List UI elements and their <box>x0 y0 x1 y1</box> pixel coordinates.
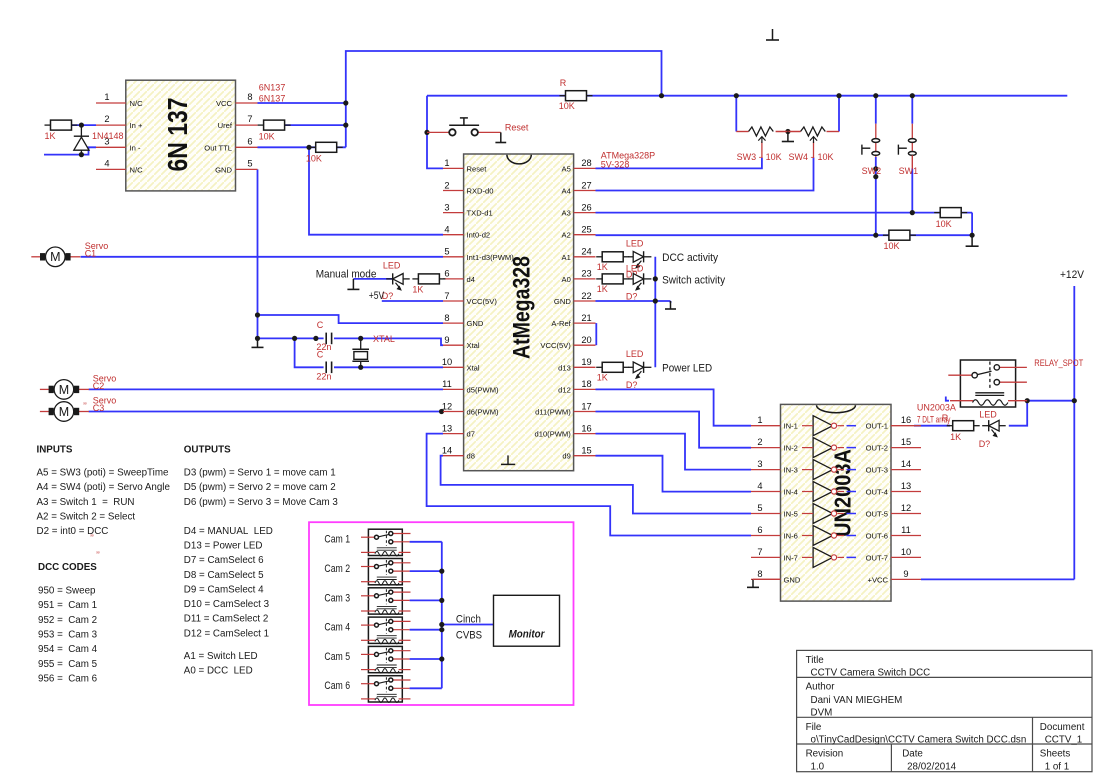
junction LED switch <box>653 276 658 281</box>
svg-text:10K: 10K <box>818 152 834 162</box>
svg-text:12: 12 <box>442 401 452 411</box>
svg-text:1K: 1K <box>412 285 423 295</box>
wire cam4 video <box>410 629 442 631</box>
svg-text:A2: A2 <box>562 231 571 240</box>
wire SW2 lower leg <box>875 157 877 235</box>
junction OutTTL <box>306 145 311 150</box>
svg-text:22n: 22n <box>316 372 331 382</box>
junction rail corner <box>659 93 664 98</box>
svg-text:A-Ref: A-Ref <box>551 319 571 328</box>
svg-text:Cam 5: Cam 5 <box>324 651 350 663</box>
svg-text:7: 7 <box>247 114 252 124</box>
resistor R? 10K Uref <box>258 120 291 141</box>
svg-text:OUT-7: OUT-7 <box>866 553 888 562</box>
svg-text:Xtal: Xtal <box>467 341 480 350</box>
relay Cam 3 <box>361 588 411 615</box>
resistor R? 1K d13 <box>596 362 629 382</box>
svg-text:R: R <box>560 78 567 88</box>
wire GND pin22 bend <box>670 301 672 303</box>
table title block <box>797 650 1092 771</box>
svg-text:1 of 1: 1 of 1 <box>1045 762 1070 773</box>
junction LED gnd <box>653 298 658 303</box>
svg-text:8: 8 <box>757 569 762 579</box>
resistor R? 10K OutTTL <box>306 142 343 163</box>
U1 pin numbers <box>104 92 252 168</box>
junction xtal left <box>292 336 297 341</box>
svg-text:IN-5: IN-5 <box>784 510 798 519</box>
U1 pin names <box>130 99 233 174</box>
junction d6 wire <box>439 409 444 414</box>
wire d8 to IN-5 <box>441 456 751 514</box>
svg-text:9: 9 <box>903 569 908 579</box>
wire SW1 lower leg <box>911 169 913 213</box>
relay RELAY_SPDT <box>948 360 1027 407</box>
svg-text:12: 12 <box>901 503 911 513</box>
relay Cam 1 <box>361 529 411 556</box>
resistor R? 1K A1 <box>596 252 629 272</box>
svg-text:Xtal: Xtal <box>467 363 480 372</box>
svg-text:+12V: +12V <box>1060 269 1085 281</box>
wire A5 to SW3 wiper <box>596 158 762 169</box>
svg-text:GND: GND <box>467 319 484 328</box>
wire cam1 video <box>410 541 442 543</box>
svg-text:18: 18 <box>581 379 591 389</box>
svg-text:13: 13 <box>901 481 911 491</box>
junction reset node <box>424 130 429 135</box>
wire +5V top rail <box>346 51 662 147</box>
svg-text:Reset: Reset <box>505 123 529 133</box>
svg-text:1N4148: 1N4148 <box>92 131 124 141</box>
svg-text:Revision: Revision <box>806 749 844 760</box>
svg-text:5: 5 <box>444 247 449 257</box>
switch Reset pushbutton <box>427 118 501 136</box>
svg-text:OUTPUTS: OUTPUTS <box>184 445 231 456</box>
svg-text:4: 4 <box>444 225 449 235</box>
svg-text:A3: A3 <box>562 209 571 218</box>
junction crystal top <box>358 336 363 341</box>
wire d10 to IN-3 <box>596 434 752 470</box>
svg-text:d12: d12 <box>558 385 571 394</box>
resistor R? 10K A2 <box>883 230 916 251</box>
relay Cam 2 <box>361 559 411 586</box>
IC U2 AtMega328 <box>464 154 574 471</box>
svg-text:File: File <box>806 722 822 733</box>
svg-text:D7 = CamSelect 6: D7 = CamSelect 6 <box>184 555 264 566</box>
svg-text:A5: A5 <box>562 164 571 173</box>
resistor R 10K pullup <box>560 91 593 101</box>
svg-text:Manual mode: Manual mode <box>316 269 377 281</box>
led D? manual mode <box>386 273 410 290</box>
svg-text:VCC(5V): VCC(5V) <box>467 297 498 306</box>
svg-text:24: 24 <box>581 247 591 257</box>
svg-text:D?: D? <box>626 380 638 390</box>
junction GND pin8 <box>255 312 260 317</box>
svg-text:21: 21 <box>581 313 591 323</box>
svg-text:IN-6: IN-6 <box>784 532 798 541</box>
svg-text:8: 8 <box>444 313 449 323</box>
svg-text:14: 14 <box>901 459 911 469</box>
svg-text:D11 = CamSelect 2: D11 = CamSelect 2 <box>184 614 268 625</box>
svg-text:VCC: VCC <box>216 99 233 108</box>
ground U3 GND pin <box>747 579 759 587</box>
svg-text:D3 (pwm) = Servo 1 = move cam: D3 (pwm) = Servo 1 = move cam 1 <box>184 468 336 479</box>
svg-text:20: 20 <box>581 335 591 345</box>
motor servo C1 <box>31 247 80 267</box>
svg-text:A3 = Switch 1 = RUN: A3 = Switch 1 = RUN <box>37 497 135 508</box>
lead SW3 left <box>736 131 748 133</box>
svg-text:28/02/2014: 28/02/2014 <box>907 762 957 773</box>
svg-text:Uref: Uref <box>218 121 233 130</box>
svg-text:1K: 1K <box>597 284 608 294</box>
svg-text:953 = Cam 3: 953 = Cam 3 <box>38 630 98 641</box>
junction +12V <box>1072 398 1077 403</box>
text title block fields <box>806 655 1085 773</box>
svg-text:15: 15 <box>581 446 591 456</box>
U2 pin numbers <box>442 158 592 455</box>
svg-text:6N137: 6N137 <box>259 83 286 93</box>
wire LED to relay coil <box>1009 401 1027 426</box>
box cam group magenta <box>309 522 574 705</box>
potentiometer SW4 10K <box>801 127 826 158</box>
svg-text:A4 = SW4 (poti) = Servo Angle: A4 = SW4 (poti) = Servo Angle <box>37 482 171 493</box>
svg-text:d5(PWM): d5(PWM) <box>467 385 500 394</box>
wire cam video bus <box>441 542 443 689</box>
wire servo C3 to d6 <box>89 411 443 413</box>
switch SW1 pushbutton <box>898 124 916 157</box>
svg-text:D5 (pwm) = Servo 2 = move cam: D5 (pwm) = Servo 2 = move cam 2 <box>184 482 336 493</box>
svg-text:’’: ’’ <box>83 401 87 411</box>
svg-text:954 = Cam 4: 954 = Cam 4 <box>38 644 98 655</box>
svg-text:1K: 1K <box>45 131 56 141</box>
svg-text:25: 25 <box>581 225 591 235</box>
wire SW3 top leg <box>735 96 737 132</box>
wire A4 to SW4 wiper <box>596 158 814 191</box>
junction SW2 b <box>873 174 878 179</box>
svg-text:SW4 -: SW4 - <box>789 152 814 162</box>
svg-text:OUT-6: OUT-6 <box>866 532 888 541</box>
svg-text:OUT-2: OUT-2 <box>866 444 888 453</box>
svg-text:7: 7 <box>444 291 449 301</box>
svg-text:17: 17 <box>581 401 591 411</box>
svg-text:RXD-d0: RXD-d0 <box>467 187 494 196</box>
svg-text:23: 23 <box>581 269 591 279</box>
lead SW4 right <box>827 131 840 133</box>
svg-text:GND: GND <box>554 297 571 306</box>
svg-text:10K: 10K <box>306 154 322 164</box>
svg-text:C: C <box>317 320 324 330</box>
junction A3-A2 gnd <box>970 233 975 238</box>
wire relay coil to +12V <box>1027 400 1074 402</box>
svg-text:956 = Cam 6: 956 = Cam 6 <box>38 673 98 684</box>
U3 pin numbers <box>757 415 911 579</box>
wire SW2 upper leg <box>875 96 877 124</box>
ground reset button <box>495 132 506 142</box>
wire OUT-1 to 1K <box>914 425 950 427</box>
wire XTAL top line <box>258 338 444 345</box>
resistor R? 1K A0 <box>596 274 629 294</box>
motor servo C3 <box>40 402 89 422</box>
svg-text:C: C <box>317 350 324 360</box>
svg-text:19: 19 <box>581 357 591 367</box>
svg-text:D6 (pwm) = Servo 3 = Move Cam: D6 (pwm) = Servo 3 = Move Cam 3 <box>184 497 339 508</box>
svg-text:VCC(5V): VCC(5V) <box>540 341 571 350</box>
IC U1 6N137 <box>126 80 236 191</box>
svg-text:C2: C2 <box>93 381 105 391</box>
junction cam2 <box>439 569 444 574</box>
junction monitor tap <box>439 622 444 627</box>
svg-text:LED: LED <box>979 410 997 420</box>
ground floating top <box>766 29 779 40</box>
svg-text:27: 27 <box>581 180 591 190</box>
IC U3 UN2003A <box>781 404 892 601</box>
svg-text:Date: Date <box>902 749 923 760</box>
wire servo C2 to d5 <box>89 388 443 390</box>
junction In+ diode <box>79 123 84 128</box>
svg-text:5: 5 <box>757 503 762 513</box>
wire cam3 video <box>410 599 442 601</box>
svg-text:3: 3 <box>444 202 449 212</box>
svg-text:4: 4 <box>104 158 109 168</box>
svg-text:CCTV_1: CCTV_1 <box>1045 735 1083 746</box>
wire SW4 top leg <box>838 96 840 132</box>
svg-text:D9 = CamSelect 4: D9 = CamSelect 4 <box>184 584 264 595</box>
svg-text:16: 16 <box>581 423 591 433</box>
svg-text:Cam 4: Cam 4 <box>324 622 350 634</box>
svg-text:LED: LED <box>626 264 644 274</box>
junction SW1 rail <box>910 93 915 98</box>
svg-text:d8: d8 <box>467 452 475 461</box>
wire cam2 video <box>410 570 442 572</box>
svg-text:N/C: N/C <box>130 165 144 174</box>
svg-text:10: 10 <box>442 357 452 367</box>
led D? relay <box>982 420 1006 437</box>
svg-text:1: 1 <box>757 415 762 425</box>
wire OutTTL to Int0-d2 <box>309 147 443 234</box>
lead pots center <box>776 131 801 133</box>
junction SW4 leg <box>836 93 841 98</box>
svg-text:955 = Cam 5: 955 = Cam 5 <box>38 659 98 670</box>
svg-text:In +: In + <box>130 121 143 130</box>
svg-text:o\TinyCadDesign\CCTV Camera Sw: o\TinyCadDesign\CCTV Camera Switch DCC.d… <box>811 735 1027 746</box>
svg-text:10K: 10K <box>766 152 782 162</box>
wire +5V stub to VCC pin7 <box>382 300 443 302</box>
svg-text:A5 = SW3 (poti) = SweepTime: A5 = SW3 (poti) = SweepTime <box>37 468 169 479</box>
wire LED cathode bus <box>654 257 656 368</box>
switch SW2 pushbutton <box>862 124 880 157</box>
svg-text:C1: C1 <box>85 248 97 258</box>
svg-text:Int1-d3(PWM): Int1-d3(PWM) <box>467 253 515 262</box>
junction cam5 <box>439 656 444 661</box>
svg-text:Title: Title <box>806 655 825 666</box>
svg-text:Cam 2: Cam 2 <box>324 563 350 575</box>
svg-text:OUT-5: OUT-5 <box>866 510 888 519</box>
svg-text:Int0-d2: Int0-d2 <box>467 231 491 240</box>
svg-text:Cam 1: Cam 1 <box>324 534 350 546</box>
svg-text:Power LED: Power LED <box>662 363 712 375</box>
svg-text:4: 4 <box>757 481 762 491</box>
svg-text:10K: 10K <box>559 101 575 111</box>
svg-text:DVM: DVM <box>811 707 833 718</box>
wire +VCC pin9 <box>921 578 1074 580</box>
ground pin22 <box>665 301 676 309</box>
svg-text:IN-4: IN-4 <box>784 488 798 497</box>
svg-text:16: 16 <box>901 415 911 425</box>
svg-text:1K: 1K <box>950 432 961 442</box>
svg-text:IN-3: IN-3 <box>784 466 798 475</box>
svg-text:A1 = Switch LED: A1 = Switch LED <box>184 651 258 662</box>
junction cam4 <box>439 627 444 632</box>
svg-text:D4 = MANUAL LED: D4 = MANUAL LED <box>184 526 273 537</box>
svg-text:+5V: +5V <box>369 290 385 302</box>
svg-text:2: 2 <box>444 180 449 190</box>
svg-text:LED: LED <box>383 260 401 270</box>
svg-text:D12 = CamSelect 1: D12 = CamSelect 1 <box>184 628 269 639</box>
svg-text:UN2003A: UN2003A <box>917 403 956 413</box>
svg-text:d4: d4 <box>467 275 475 284</box>
svg-text:950 = Sweep: 950 = Sweep <box>38 586 96 597</box>
wire cam6 video <box>410 687 442 689</box>
svg-text:IN-2: IN-2 <box>784 444 798 453</box>
svg-text:Out TTL: Out TTL <box>204 143 232 152</box>
wire d9 to IN-4 <box>596 456 752 492</box>
svg-text:6N 137: 6N 137 <box>162 98 193 172</box>
svg-text:1: 1 <box>444 158 449 168</box>
svg-text:3: 3 <box>757 459 762 469</box>
wire reset node vertical to pin1 <box>427 96 443 169</box>
text INPUTS list <box>37 445 171 538</box>
svg-text:951 = Cam 1: 951 = Cam 1 <box>38 600 97 611</box>
svg-text:Cam 3: Cam 3 <box>324 592 350 604</box>
junction crystal bottom <box>358 365 363 370</box>
svg-text:d10(PWM): d10(PWM) <box>535 430 572 439</box>
wire +5V distribution rail <box>427 95 1067 97</box>
svg-text:CVBS: CVBS <box>456 630 482 642</box>
svg-text:D10 = CamSelect 3: D10 = CamSelect 3 <box>184 599 270 610</box>
svg-text:5: 5 <box>247 158 252 168</box>
lead U3 GND <box>753 578 781 580</box>
svg-text:LED: LED <box>626 349 644 359</box>
svg-text:Monitor: Monitor <box>509 629 546 641</box>
svg-text:D?: D? <box>979 439 991 449</box>
svg-text:CCTV Camera Switch DCC: CCTV Camera Switch DCC <box>811 668 931 679</box>
U3 pin leads <box>751 426 921 580</box>
junction SW3 leg <box>734 93 739 98</box>
junction SW2 a <box>873 166 878 171</box>
U3 pin names <box>784 422 889 585</box>
wire A3 bend to A2 line <box>971 213 973 236</box>
junction SW2 A2 <box>873 233 878 238</box>
text OUTPUTS list <box>184 445 339 677</box>
resistor R? 10K A3 <box>934 208 967 229</box>
svg-text:Sheets: Sheets <box>1040 749 1071 760</box>
crystal XTAL <box>352 338 369 367</box>
U2 pin names <box>467 164 572 460</box>
wire cam5 video <box>410 658 442 660</box>
junction SW1 A3 <box>910 210 915 215</box>
wire bus to monitor <box>442 624 494 626</box>
svg-text:14: 14 <box>442 446 452 456</box>
ground pots center <box>782 132 794 142</box>
resistor R? 1K relay LED <box>947 421 980 442</box>
svg-text:A0: A0 <box>562 275 571 284</box>
capacitor C 22n top <box>324 332 334 344</box>
svg-text:1K: 1K <box>597 262 608 272</box>
svg-text:5V-328: 5V-328 <box>601 160 630 170</box>
svg-text:Switch activity: Switch activity <box>662 274 726 286</box>
svg-text:11: 11 <box>442 379 452 389</box>
svg-text:Dani VAN MIEGHEM: Dani VAN MIEGHEM <box>811 695 903 706</box>
wire 6N137 GND down <box>257 169 259 338</box>
svg-text:A4: A4 <box>562 187 571 196</box>
svg-text:15: 15 <box>901 437 911 447</box>
relay Cam 5 <box>361 646 411 673</box>
svg-text:OUT-1: OUT-1 <box>866 422 888 431</box>
junction SW2 rail <box>873 93 878 98</box>
svg-text:7: 7 <box>757 547 762 557</box>
wire SW1 upper leg <box>911 96 913 124</box>
svg-text:6: 6 <box>247 136 252 146</box>
svg-text:Reset: Reset <box>467 164 488 173</box>
ground A3-A2 divider <box>966 235 979 246</box>
svg-text:Document: Document <box>1040 722 1085 733</box>
junction cap1 <box>313 336 318 341</box>
wire d11 to IN-2 <box>596 412 752 448</box>
svg-text:10K: 10K <box>936 219 952 229</box>
svg-text:INPUTS: INPUTS <box>37 445 73 456</box>
svg-text:d13: d13 <box>558 363 571 372</box>
resistor R? 1K input <box>45 120 78 141</box>
junction VCC rail <box>343 100 348 105</box>
svg-text:TXD-d1: TXD-d1 <box>467 209 493 218</box>
svg-text:In -: In - <box>130 143 141 152</box>
junction relay coil <box>1025 398 1030 403</box>
svg-text:A0 = DCC LED: A0 = DCC LED <box>184 666 253 677</box>
wire relay coil left stub <box>946 397 949 401</box>
wire OutTTL node <box>258 146 346 148</box>
junction GND xtal <box>255 336 260 341</box>
ground manual LED <box>347 279 359 290</box>
svg-text:D?: D? <box>626 291 638 301</box>
wire d12 to IN-1 <box>596 389 752 425</box>
junction Uref rail <box>343 123 348 128</box>
lead SW1 bottom <box>911 155 913 168</box>
svg-text:D13 = Power LED: D13 = Power LED <box>184 540 263 551</box>
svg-text:13: 13 <box>442 423 452 433</box>
wire In- step <box>44 147 96 154</box>
U1 pin leads <box>96 103 258 169</box>
svg-text:10K: 10K <box>884 241 900 251</box>
svg-text:SW1: SW1 <box>899 166 919 176</box>
svg-text:2: 2 <box>104 114 109 124</box>
svg-text:SW3 -: SW3 - <box>737 152 762 162</box>
svg-text:’’: ’’ <box>96 550 100 560</box>
svg-text:1.0: 1.0 <box>811 762 825 773</box>
wire Uref resistor to rail <box>285 124 346 126</box>
svg-text:D8 = CamSelect 5: D8 = CamSelect 5 <box>184 570 264 581</box>
svg-text:D2 = int0 = DCC: D2 = int0 = DCC <box>37 526 109 537</box>
svg-text:952 = Cam 2: 952 = Cam 2 <box>38 615 97 626</box>
box Monitor <box>494 595 560 646</box>
svg-text:1K: 1K <box>597 372 608 382</box>
svg-text:11: 11 <box>901 525 911 535</box>
svg-text:d7: d7 <box>467 430 475 439</box>
svg-text:10K: 10K <box>259 132 275 142</box>
svg-text:6N137: 6N137 <box>259 94 286 104</box>
svg-text:RELAY_SPOT: RELAY_SPOT <box>1034 358 1083 368</box>
svg-text:C3: C3 <box>93 403 105 413</box>
U2 pin leads <box>443 168 596 455</box>
U2 internal ground <box>501 455 515 464</box>
